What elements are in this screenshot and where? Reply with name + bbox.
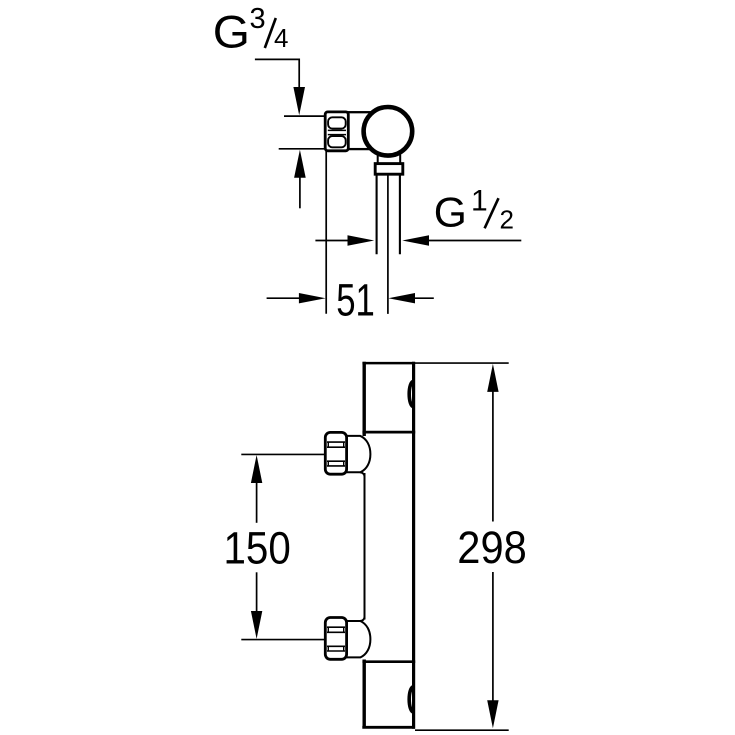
svg-text:51: 51 [336, 274, 375, 325]
body left edge between connections [364, 473, 366, 620]
extension line nut bottom [279, 148, 327, 150]
fillet below upper dome [360, 472, 365, 477]
51 arrow pointing right [299, 293, 326, 303]
separation line below top cap [362, 431, 415, 434]
upper union nut (front view) [325, 432, 346, 474]
svg-text:150: 150 [224, 522, 291, 573]
arrow pointing up to nut bottom line [294, 150, 306, 178]
leader arrow pointing down to nut top [293, 87, 305, 115]
upper inlet shoulder dome [347, 436, 371, 472]
arrow tail below [299, 177, 301, 208]
thread label G 3/4 [213, 3, 289, 57]
shower pipe outline left [376, 174, 378, 254]
298 dimension line lower tail [492, 572, 494, 702]
leader line from G 3/4 label [255, 59, 299, 87]
298 top extension line [415, 362, 509, 364]
51 dimension line right [415, 297, 434, 299]
extension line nut top [284, 115, 326, 117]
svg-text:G: G [213, 6, 250, 57]
top cartridge arc on right edge [409, 381, 413, 406]
thread label G 1/2 [434, 184, 514, 235]
150 bottom extension line [241, 639, 325, 641]
extension line for 51 (left, from nut) [325, 151, 327, 314]
collar band [375, 164, 403, 175]
150 dimension line lower tail [256, 572, 258, 612]
shower pipe outline right [399, 174, 401, 254]
150 top extension line [241, 453, 325, 455]
lower inlet shoulder dome [347, 621, 371, 657]
body right edge [412, 362, 415, 729]
fillet above lower dome [360, 617, 365, 622]
G 1/2 dimension line right segment [429, 240, 522, 242]
150 dimension line upper tail [256, 482, 258, 523]
svg-text:1: 1 [471, 184, 488, 217]
union nut (side view) [325, 112, 348, 151]
svg-text:298: 298 [457, 522, 527, 573]
298 dimension arrow up [487, 364, 498, 392]
bottom cap left edge [363, 660, 366, 729]
298 bottom extension line [415, 729, 509, 731]
valve body (side view) [347, 112, 391, 149]
51 arrow pointing left [388, 293, 415, 303]
separation line above bottom cap [362, 660, 415, 663]
G 1/2 dimension line left segment [315, 240, 348, 242]
svg-text:2: 2 [500, 205, 514, 235]
150 dimension arrow up [251, 455, 262, 483]
neck below knob [378, 155, 401, 165]
bottom cap bottom edge [362, 726, 415, 729]
298 dimension line upper tail [492, 391, 494, 522]
G 1/2 arrow pointing right at pipe [348, 235, 375, 245]
lower union nut (front view) [325, 618, 346, 660]
top cap top edge [362, 362, 414, 365]
svg-text:3: 3 [250, 3, 266, 35]
svg-text:4: 4 [274, 23, 288, 53]
thermostat knob circle (side view) [364, 107, 413, 156]
51 dimension line left [267, 297, 300, 299]
pipe centerline / extension line for 51 (right) [387, 174, 389, 314]
G 1/2 arrow pointing left at pipe [402, 235, 429, 245]
298 dimension arrow down [487, 700, 498, 728]
top cap left edge [363, 362, 366, 436]
svg-text:G: G [434, 189, 467, 236]
150 dimension arrow down [251, 611, 262, 639]
bottom cartridge arc on right edge [409, 687, 413, 712]
